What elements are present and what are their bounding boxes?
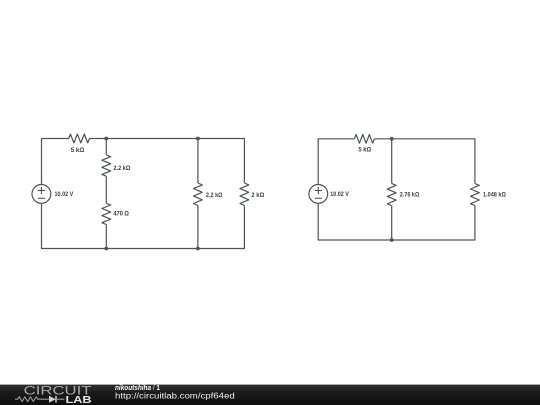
wire middle branch lower segment (left circuit) [105, 225, 107, 249]
resistor R8 1.048 kOhm (right circuit right rail) [471, 184, 480, 206]
wire right rail upper + top wire right (right circuit) [374, 139, 475, 184]
resistor R5 2 kOhm (left circuit right rail) [240, 183, 249, 205]
CircuitLab logo diode symbol [49, 396, 65, 403]
svg-text:2.2 kΩ: 2.2 kΩ [113, 165, 130, 172]
resistor R1 5 kOhm (left circuit top) [69, 134, 90, 143]
svg-text:470 Ω: 470 Ω [113, 210, 129, 217]
node junction bottom of second branch (left circuit) [196, 247, 200, 251]
wire second branch upper segment (left circuit) [197, 139, 199, 184]
wire top-left corner + left rail upper (right circuit) [318, 139, 354, 185]
svg-text:10.02 V: 10.02 V [55, 191, 74, 198]
wire right rail upper + top wire right (left circuit) [90, 139, 245, 184]
voltage source V2 10.02 V (right circuit) [309, 185, 328, 204]
wire second branch lower segment (left circuit) [197, 205, 199, 248]
node junction top of middle branch (right circuit) [390, 137, 394, 141]
voltage source V1 10.02 V (left circuit) [32, 185, 51, 204]
resistor R6 5 kOhm (right circuit top) [354, 134, 374, 143]
node junction bottom of middle branch (left circuit) [104, 247, 108, 251]
svg-text:5 kΩ: 5 kΩ [71, 147, 85, 154]
resistor R2 2.2 kOhm (left circuit middle branch upper) [102, 155, 111, 176]
footer bar [0, 385, 540, 405]
svg-text:2.76 kΩ: 2.76 kΩ [400, 192, 420, 199]
node junction bottom of middle branch (right circuit) [390, 238, 394, 242]
svg-text:10.02 V: 10.02 V [330, 191, 349, 198]
wire left rail lower + bottom wire + right rail lower (right circuit) [318, 203, 475, 240]
wire middle branch upper segment (left circuit) [105, 139, 107, 155]
wire left rail lower + bottom wire + right rail lower (left circuit) [42, 203, 245, 248]
resistor R3 470 Ohm (left circuit middle branch lower) [102, 203, 111, 224]
CircuitLab logo resistor zigzag [15, 397, 49, 402]
svg-text:2 kΩ: 2 kΩ [251, 192, 264, 199]
resistor R7 2.76 kOhm (right circuit middle branch) [387, 184, 396, 206]
wire middle branch upper segment (right circuit) [391, 139, 393, 184]
node junction top of middle branch (left circuit) [104, 137, 108, 141]
svg-text:1.048 kΩ: 1.048 kΩ [483, 192, 506, 199]
svg-text:2.2 kΩ: 2.2 kΩ [206, 192, 223, 199]
svg-text:http://circuitlab.com/cpf64ed: http://circuitlab.com/cpf64ed [115, 391, 235, 400]
svg-text:5 kΩ: 5 kΩ [358, 147, 371, 154]
resistor R4 2.2 kOhm (left circuit second branch) [194, 183, 203, 205]
wire middle branch lower segment (right circuit) [391, 206, 393, 240]
wire middle branch between resistors (left circuit) [105, 176, 107, 203]
node junction top of second branch (left circuit) [196, 137, 200, 141]
svg-text:LAB: LAB [66, 395, 92, 405]
wire top-left corner + left rail upper (left circuit) [42, 139, 69, 185]
